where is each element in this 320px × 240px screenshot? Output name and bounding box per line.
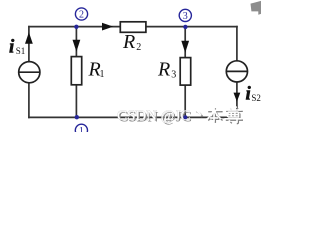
wire right branch lower [236,82,238,117]
current source iS2 [226,61,247,82]
wire top horizontal left segment (node2 area) [28,26,120,28]
resistor R1 [71,57,81,85]
node dot R3 bottom junction [183,115,187,119]
resistor R3 [180,58,191,86]
wire bottom horizontal [28,116,238,118]
svg-text:R: R [122,31,135,53]
arrow down on iS2 branch [234,93,241,102]
node dot node1 [75,115,79,119]
wire R1 branch lower [75,85,77,118]
svg-text:1: 1 [79,126,84,132]
node label 2 circled [75,8,87,21]
svg-text:i: i [9,37,15,58]
wire left branch lower [28,83,30,119]
arrow right on top wire [102,23,113,31]
node label 3 circled [179,9,191,22]
svg-text:S1: S1 [16,46,26,56]
svg-text:2: 2 [136,42,141,53]
svg-text:R: R [157,59,170,81]
svg-text:3: 3 [171,69,176,80]
arrow down on R3 branch [181,41,189,53]
wire R1 branch upper [75,27,77,57]
wire top horizontal right segment [146,26,238,28]
resistor R2 [120,22,146,33]
node dot node3 [183,25,187,29]
current source iS1 [19,62,40,83]
svg-text:S2: S2 [251,93,261,103]
watermark CSDN @JC丶本尊 [117,107,243,126]
node dot node2 [74,25,78,29]
svg-text:3: 3 [183,11,188,22]
svg-text:CSDN @JC: CSDN @JC [117,108,190,124]
node label 1 circled [75,124,87,137]
wire left branch upper [28,26,30,62]
svg-text:1: 1 [100,69,105,80]
wire R3 branch lower [184,85,186,118]
watermark corner fragment top-right [251,1,262,15]
svg-text:2: 2 [79,10,84,21]
arrow down on R1 branch [73,40,81,52]
wire right branch upper [236,26,238,62]
arrow up on iS1 branch [25,32,33,44]
wire R3 branch upper [184,27,186,58]
